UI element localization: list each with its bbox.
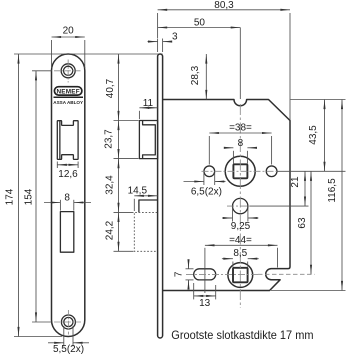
centerlines screw top <box>54 70 81 72</box>
ext latch bottom <box>114 158 139 160</box>
svg-text:80,3: 80,3 <box>214 0 234 11</box>
extension line top (y=54, shared 174 / 40,7 / 28,3) <box>14 53 163 55</box>
ext cylinder right <box>250 205 309 207</box>
oval slot 13x7 <box>194 269 216 280</box>
svg-text:21: 21 <box>290 176 301 188</box>
follower hub circle <box>225 156 255 186</box>
dim 6,5(2x) <box>184 181 204 183</box>
dim 11 (latch protrusion) <box>139 107 157 109</box>
svg-text:43,5: 43,5 <box>308 125 319 145</box>
follower square 8mm <box>233 164 247 178</box>
dim 8 (deadbolt width) <box>44 202 60 204</box>
svg-text:7: 7 <box>173 271 184 277</box>
dim 28,3 <box>205 54 207 100</box>
svg-text:ASSA ABLOY: ASSA ABLOY <box>53 100 83 105</box>
dim 154 <box>35 71 37 322</box>
svg-text:40,7: 40,7 <box>105 78 116 98</box>
svg-text:5,5(2x): 5,5(2x) <box>53 344 84 355</box>
svg-text:3: 3 <box>172 32 178 43</box>
rule under logo <box>54 96 84 98</box>
svg-text:6,5(2x): 6,5(2x) <box>191 186 222 197</box>
lower follower square 8,5 <box>233 268 248 283</box>
case outline <box>163 100 290 291</box>
ext follower row right <box>277 170 346 172</box>
faceplate side <box>158 54 163 338</box>
extension 154 bottom <box>32 321 52 323</box>
lower follower circle <box>228 263 253 288</box>
dim 7 (oval height) <box>188 261 190 269</box>
dim =44= <box>205 244 278 246</box>
dim 3 (plate thickness) <box>148 41 158 43</box>
svg-text:8,5: 8,5 <box>233 248 247 259</box>
svg-text:13: 13 <box>199 298 211 309</box>
svg-text:Grootste slotkastdikte 17 mm: Grootste slotkastdikte 17 mm <box>171 328 313 342</box>
deadbolt side dashed (thrown) <box>134 212 157 251</box>
svg-text:20: 20 <box>63 26 75 37</box>
svg-text:23,7: 23,7 <box>104 129 115 149</box>
svg-text:11: 11 <box>143 98 154 109</box>
ext case bottom right <box>271 290 346 292</box>
svg-text:8: 8 <box>64 192 70 203</box>
ext deadbolt top <box>114 211 134 213</box>
svg-text:14,5: 14,5 <box>128 185 148 196</box>
latch inner line <box>59 121 61 160</box>
dim 8 (follower square) <box>224 147 233 149</box>
svg-text:=44=: =44= <box>229 235 252 246</box>
latch cutout front <box>57 121 78 160</box>
deadbolt cutout front <box>60 212 73 253</box>
screw hole top <box>61 64 75 78</box>
svg-text:24,2: 24,2 <box>105 220 116 240</box>
dim 21 <box>304 171 306 206</box>
latch side view <box>139 121 157 159</box>
ext latch top <box>114 120 139 122</box>
center axis vertical <box>239 28 241 100</box>
hidden line notch center <box>258 273 315 275</box>
centerline cylinder <box>227 205 250 207</box>
dim 12,6 <box>57 164 78 166</box>
dim =38= <box>209 132 271 134</box>
svg-text:116,5: 116,5 <box>327 178 338 203</box>
dim 50 <box>158 27 241 29</box>
extension 154 top <box>32 70 52 72</box>
svg-text:9,25: 9,25 <box>231 221 251 232</box>
svg-text:28,3: 28,3 <box>190 65 201 85</box>
centerline follower row <box>202 170 278 172</box>
svg-text:154: 154 <box>24 188 35 205</box>
screw hole bottom <box>61 315 75 329</box>
cylinder hole 9,25 <box>233 198 248 213</box>
dim 5,5(2x) <box>48 342 64 344</box>
dim 63 <box>310 171 312 274</box>
svg-text:12,6: 12,6 <box>58 169 78 180</box>
deadbolt side solid part <box>139 200 158 212</box>
svg-text:=38=: =38= <box>229 122 252 133</box>
faceplate outline <box>52 54 85 337</box>
svg-text:174: 174 <box>5 188 16 205</box>
NEMEF logo oval <box>54 87 82 95</box>
latch side inner profile <box>143 121 156 159</box>
dim 9,25 <box>222 217 233 219</box>
svg-text:8: 8 <box>238 138 244 149</box>
extension line bottom of plate (174) <box>14 336 62 338</box>
svg-text:32,4: 32,4 <box>105 175 116 195</box>
dim 43,5 <box>324 100 326 172</box>
svg-text:NEMEF: NEMEF <box>56 89 79 96</box>
dim 14,5 <box>134 195 157 197</box>
dim 8,5 <box>222 258 233 260</box>
centerlines screw bottom <box>54 321 81 323</box>
ext deadbolt bottom <box>114 250 134 252</box>
fixing hole left 6,5 <box>204 166 215 177</box>
dim 116,5 <box>341 100 343 291</box>
dim 174 <box>18 54 20 337</box>
svg-text:50: 50 <box>194 17 206 28</box>
dim 80,3 <box>158 9 290 11</box>
dim column 40,7 / 23,7 / 32,4 / 24,2 <box>118 54 120 121</box>
ext case top right <box>291 99 346 101</box>
centerline lower row <box>186 273 258 275</box>
dim 13 (oval width) <box>194 295 216 297</box>
svg-text:63: 63 <box>297 217 308 229</box>
fixing hole right 6,5 <box>266 166 277 177</box>
dim 20 <box>52 36 85 38</box>
